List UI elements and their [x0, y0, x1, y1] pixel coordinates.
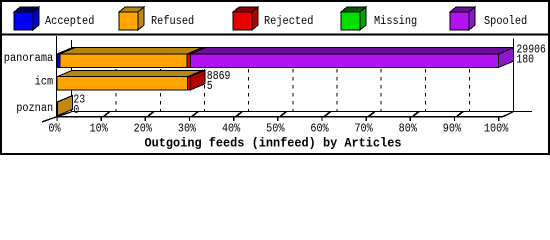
svg-text:80%: 80%: [399, 123, 417, 136]
svg-text:panorama: panorama: [4, 52, 53, 65]
svg-text:icm: icm: [35, 76, 54, 89]
svg-text:90%: 90%: [443, 123, 461, 136]
svg-text:70%: 70%: [354, 123, 372, 136]
svg-text:Outgoing feeds (innfeed) by Ar: Outgoing feeds (innfeed) by Articles: [145, 136, 402, 151]
svg-text:Rejected: Rejected: [264, 15, 313, 28]
svg-text:50%: 50%: [266, 123, 284, 136]
svg-text:poznan: poznan: [16, 102, 53, 115]
svg-text:5: 5: [207, 80, 213, 93]
svg-text:Missing: Missing: [374, 15, 417, 28]
svg-text:100%: 100%: [484, 123, 508, 136]
svg-text:0: 0: [73, 104, 79, 117]
svg-text:0%: 0%: [48, 123, 60, 136]
svg-text:30%: 30%: [178, 123, 196, 136]
svg-text:60%: 60%: [310, 123, 328, 136]
svg-text:Accepted: Accepted: [45, 15, 94, 28]
svg-text:20%: 20%: [134, 123, 152, 136]
svg-text:40%: 40%: [222, 123, 240, 136]
svg-text:10%: 10%: [90, 123, 108, 136]
svg-text:Spooled: Spooled: [484, 15, 527, 28]
svg-text:180: 180: [516, 53, 534, 66]
svg-text:Refused: Refused: [151, 15, 194, 28]
